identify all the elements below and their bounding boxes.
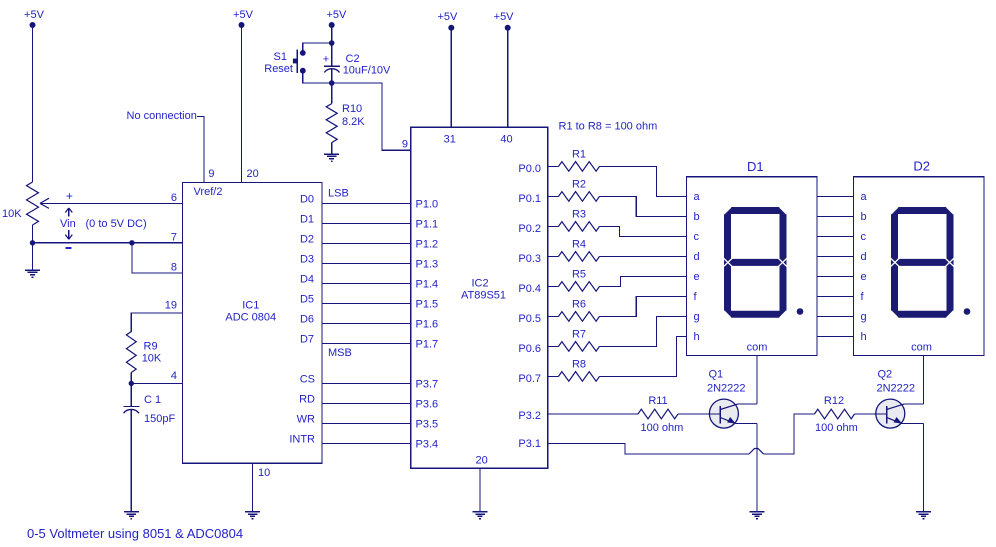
- svg-text:ADC 0804: ADC 0804: [225, 312, 276, 324]
- switch S1 Reset: [264, 50, 305, 76]
- svg-text:P3.4: P3.4: [416, 439, 439, 451]
- node pin7/pin8 junction: [129, 240, 134, 245]
- svg-text:P1.7: P1.7: [416, 339, 439, 351]
- svg-text:9: 9: [402, 139, 408, 151]
- ground: [124, 512, 139, 519]
- wire CS-P3.7: [322, 383, 411, 385]
- svg-text:R12: R12: [824, 395, 844, 407]
- svg-text:0-5 Voltmeter using 8051 & ADC: 0-5 Voltmeter using 8051 & ADC0804: [27, 526, 243, 541]
- wire: [450, 28, 452, 128]
- power +5V supply (reset network): [326, 9, 347, 28]
- svg-text:150pF: 150pF: [144, 413, 175, 425]
- ground: [473, 512, 488, 519]
- svg-text:c: c: [861, 231, 867, 243]
- wire: [130, 373, 132, 384]
- svg-text:P1.5: P1.5: [416, 299, 439, 311]
- svg-text:P0.6: P0.6: [518, 343, 541, 355]
- svg-text:D1: D1: [300, 214, 314, 226]
- ground: [25, 270, 40, 277]
- wire: [32, 243, 34, 270]
- svg-text:8: 8: [171, 262, 177, 274]
- wire RD-P3.6: [322, 403, 411, 405]
- wire Q2 emitter to ground: [923, 424, 925, 512]
- resistor R10 8.2K: [326, 103, 365, 143]
- wire D1.a to D2.a: [817, 195, 854, 197]
- svg-text:h: h: [861, 331, 867, 343]
- svg-text:10K: 10K: [2, 208, 22, 220]
- ground: [750, 512, 765, 519]
- wire D1.g to D2.g: [817, 315, 854, 317]
- svg-text:d: d: [861, 251, 867, 263]
- resistor R11 100 ohm: [638, 395, 683, 434]
- svg-text:P1.4: P1.4: [416, 279, 439, 291]
- svg-text:P3.7: P3.7: [416, 379, 439, 391]
- svg-text:+5V: +5V: [24, 9, 45, 21]
- svg-text:D4: D4: [300, 274, 314, 286]
- capacitor C2 10uF/10V: [323, 53, 391, 77]
- svg-text:No connection: No connection: [127, 110, 197, 122]
- svg-text:D7: D7: [300, 334, 314, 346]
- svg-text:4: 4: [171, 370, 177, 382]
- svg-text:Q2: Q2: [878, 369, 893, 381]
- svg-text:R6: R6: [572, 299, 586, 311]
- svg-text:10: 10: [258, 467, 270, 479]
- svg-text:R2: R2: [572, 179, 586, 191]
- wire D4 to P1.4: [322, 283, 411, 285]
- wire INTR-P3.4: [322, 443, 411, 445]
- svg-text:R9: R9: [144, 341, 158, 353]
- wire pin 20: [479, 468, 481, 512]
- wire D1 com to Q1 collector: [756, 356, 758, 404]
- svg-text:6: 6: [171, 192, 177, 204]
- wire: [241, 25, 243, 183]
- power +5V supply (pot): [24, 9, 45, 28]
- svg-text:100 ohm: 100 ohm: [641, 422, 684, 434]
- svg-text:D5: D5: [300, 294, 314, 306]
- power +5V supply (IC2 pin 40): [494, 11, 515, 31]
- wire pin 10: [252, 463, 254, 512]
- wire: [331, 25, 333, 43]
- display D1 seven-segment: [687, 159, 818, 355]
- wire WR-P3.5: [322, 423, 411, 425]
- svg-text:D1: D1: [747, 159, 764, 174]
- svg-text:D2: D2: [913, 159, 930, 174]
- wire pin 9 (no connection): [197, 117, 204, 183]
- IC U1 ADC 0804: [165, 183, 322, 464]
- svg-text:P0.2: P0.2: [518, 223, 541, 235]
- wire pin 6: [40, 202, 183, 204]
- svg-text:+: +: [66, 189, 73, 203]
- svg-text:P1.2: P1.2: [416, 239, 439, 251]
- resistor R9: [126, 332, 162, 373]
- wire D6 to P1.6: [322, 323, 411, 325]
- wire D2 to P1.2: [322, 243, 411, 245]
- svg-text:P0.4: P0.4: [518, 283, 541, 295]
- svg-text:P1.0: P1.0: [416, 199, 439, 211]
- svg-text:C2: C2: [346, 53, 360, 65]
- svg-text:40: 40: [500, 134, 512, 146]
- display D2 seven-segment: [854, 159, 985, 356]
- node junction: [329, 80, 335, 86]
- svg-text:P1.3: P1.3: [416, 259, 439, 271]
- svg-text:(0 to 5V DC): (0 to 5V DC): [86, 218, 147, 230]
- resistor R12 100 ohm: [815, 395, 858, 434]
- svg-text:Q1: Q1: [709, 369, 724, 381]
- svg-text:Reset: Reset: [264, 63, 293, 75]
- resistor R3 (P0.2 to segment c): [548, 209, 687, 237]
- svg-text:R1 to R8 = 100 ohm: R1 to R8 = 100 ohm: [559, 121, 658, 133]
- wire: [32, 225, 34, 243]
- svg-text:C 1: C 1: [144, 394, 161, 406]
- wire D1 to P1.1: [322, 223, 411, 225]
- svg-text:h: h: [694, 331, 700, 343]
- svg-text:7: 7: [171, 232, 177, 244]
- svg-text:P3.2: P3.2: [518, 410, 541, 422]
- wire P3.1 to R12: [548, 414, 815, 454]
- svg-text:LSB: LSB: [328, 188, 349, 200]
- svg-text:R5: R5: [572, 269, 586, 281]
- svg-text:P3.1: P3.1: [518, 438, 541, 450]
- wire P3.2 to R11: [548, 413, 638, 415]
- resistor R6 (P0.5 to segment f): [548, 296, 687, 321]
- svg-text:e: e: [861, 271, 867, 283]
- wire: [130, 410, 132, 512]
- svg-text:S1: S1: [274, 51, 287, 63]
- svg-text:D0: D0: [300, 194, 314, 206]
- power +5V supply (IC1 pin 20): [233, 9, 254, 28]
- ground: [245, 512, 260, 519]
- svg-text:R10: R10: [342, 103, 362, 115]
- resistor R5 (P0.4 to segment e): [548, 269, 687, 292]
- svg-text:AT89S51: AT89S51: [461, 290, 506, 302]
- wire pin 4: [131, 382, 183, 384]
- wire Q1 emitter to ground: [756, 424, 758, 512]
- svg-text:MSB: MSB: [328, 347, 352, 359]
- wire D1.b to D2.b: [817, 215, 854, 217]
- wire D1.c to D2.c: [817, 235, 854, 237]
- svg-text:10K: 10K: [142, 353, 162, 365]
- svg-text:P3.5: P3.5: [416, 419, 439, 431]
- svg-text:+: +: [323, 54, 329, 66]
- wire: [507, 28, 509, 128]
- svg-text:D6: D6: [300, 314, 314, 326]
- svg-text:P0.1: P0.1: [518, 193, 541, 205]
- svg-text:com: com: [911, 342, 932, 354]
- wire: [678, 413, 720, 415]
- transistor Q2 2N2222: [876, 369, 924, 429]
- svg-text:Vref/2: Vref/2: [194, 186, 223, 198]
- svg-text:R7: R7: [572, 329, 586, 341]
- wire D0 to P1.0: [322, 203, 411, 205]
- wire D1.h to D2.h: [817, 335, 854, 337]
- resistor R7 (P0.6 to segment g): [548, 316, 687, 351]
- svg-text:R11: R11: [648, 395, 667, 407]
- wire: [130, 383, 132, 406]
- svg-text:9: 9: [208, 168, 214, 180]
- wire: [855, 413, 887, 415]
- wire D2 com to Q2 collector: [923, 356, 925, 404]
- svg-text:P1.1: P1.1: [416, 219, 439, 231]
- wire pin 8: [132, 243, 183, 273]
- svg-text:20: 20: [247, 168, 259, 180]
- svg-text:IC1: IC1: [242, 300, 259, 312]
- potentiometer 10K: [2, 182, 39, 225]
- label Vin arrows: [65, 208, 72, 239]
- capacitor C1 150pF: [123, 394, 175, 425]
- svg-text:R3: R3: [572, 209, 586, 221]
- resistor R8 (P0.7 to segment h): [548, 336, 687, 381]
- wire D7 to P1.7: [322, 343, 411, 345]
- svg-text:g: g: [861, 311, 867, 323]
- resistor R1 (P0.0 to segment a): [548, 149, 687, 197]
- label -: [65, 247, 71, 249]
- transistor Q1 2N2222: [707, 369, 757, 429]
- svg-text:a: a: [861, 191, 868, 203]
- wire D3 to P1.3: [322, 263, 411, 265]
- resistor R4 (P0.3 to segment d): [548, 239, 687, 262]
- svg-text:+5V: +5V: [494, 11, 515, 23]
- svg-text:com: com: [747, 342, 768, 354]
- IC U2 AT89S51: [411, 127, 548, 468]
- svg-text:a: a: [694, 191, 701, 203]
- wire D1.d to D2.d: [817, 255, 854, 257]
- wire: [331, 43, 333, 66]
- svg-text:b: b: [861, 211, 867, 223]
- svg-text:2N2222: 2N2222: [877, 383, 916, 395]
- svg-text:Vin: Vin: [60, 218, 76, 230]
- wire D1.e to D2.e: [817, 275, 854, 277]
- wire D1.f to D2.f: [817, 295, 854, 297]
- ground: [916, 512, 931, 519]
- svg-text:INTR: INTR: [289, 434, 315, 446]
- svg-text:P3.6: P3.6: [416, 399, 439, 411]
- svg-text:c: c: [694, 231, 700, 243]
- wire: [303, 43, 332, 53]
- node pot wiper arrow: [40, 198, 49, 208]
- node R9/C1/pin4 junction: [129, 381, 134, 386]
- wire pin 7: [33, 242, 184, 244]
- wire pin 19: [131, 313, 183, 332]
- node junction: [329, 40, 335, 46]
- svg-text:31: 31: [444, 134, 456, 146]
- svg-text:P1.6: P1.6: [416, 319, 439, 331]
- wire D5 to P1.5: [322, 303, 411, 305]
- svg-text:IC2: IC2: [471, 278, 488, 290]
- svg-text:g: g: [694, 311, 700, 323]
- svg-text:b: b: [694, 211, 700, 223]
- svg-text:D3: D3: [300, 254, 314, 266]
- svg-text:WR: WR: [297, 414, 315, 426]
- svg-text:RD: RD: [299, 394, 315, 406]
- svg-text:+5V: +5V: [233, 9, 254, 21]
- svg-text:P0.5: P0.5: [518, 313, 541, 325]
- svg-text:19: 19: [165, 300, 177, 312]
- ground: [324, 154, 339, 161]
- svg-text:R8: R8: [572, 359, 586, 371]
- resistor R2 (P0.1 to segment b): [548, 179, 687, 217]
- svg-text:10uF/10V: 10uF/10V: [343, 65, 391, 77]
- svg-text:P0.7: P0.7: [518, 373, 541, 385]
- svg-text:CS: CS: [300, 374, 315, 386]
- svg-text:20: 20: [476, 455, 488, 467]
- svg-text:+5V: +5V: [437, 11, 458, 23]
- wire reset to IC2 pin 9: [332, 83, 411, 150]
- svg-text:R4: R4: [572, 239, 586, 251]
- wire: [331, 143, 333, 154]
- svg-text:+5V: +5V: [326, 9, 347, 21]
- svg-text:R1: R1: [572, 149, 586, 161]
- svg-text:e: e: [694, 271, 700, 283]
- svg-text:8.2K: 8.2K: [342, 116, 365, 128]
- svg-text:P0.3: P0.3: [518, 253, 541, 265]
- svg-text:D2: D2: [300, 234, 314, 246]
- node pot bottom junction: [30, 240, 35, 245]
- power +5V supply (IC2 pin 31): [437, 11, 458, 31]
- svg-text:100 ohm: 100 ohm: [815, 422, 858, 434]
- wire: [331, 69, 333, 104]
- svg-text:P0.0: P0.0: [518, 163, 541, 175]
- wire: [32, 25, 34, 182]
- wire: [303, 71, 332, 83]
- svg-text:2N2222: 2N2222: [707, 383, 746, 395]
- svg-text:d: d: [694, 251, 700, 263]
